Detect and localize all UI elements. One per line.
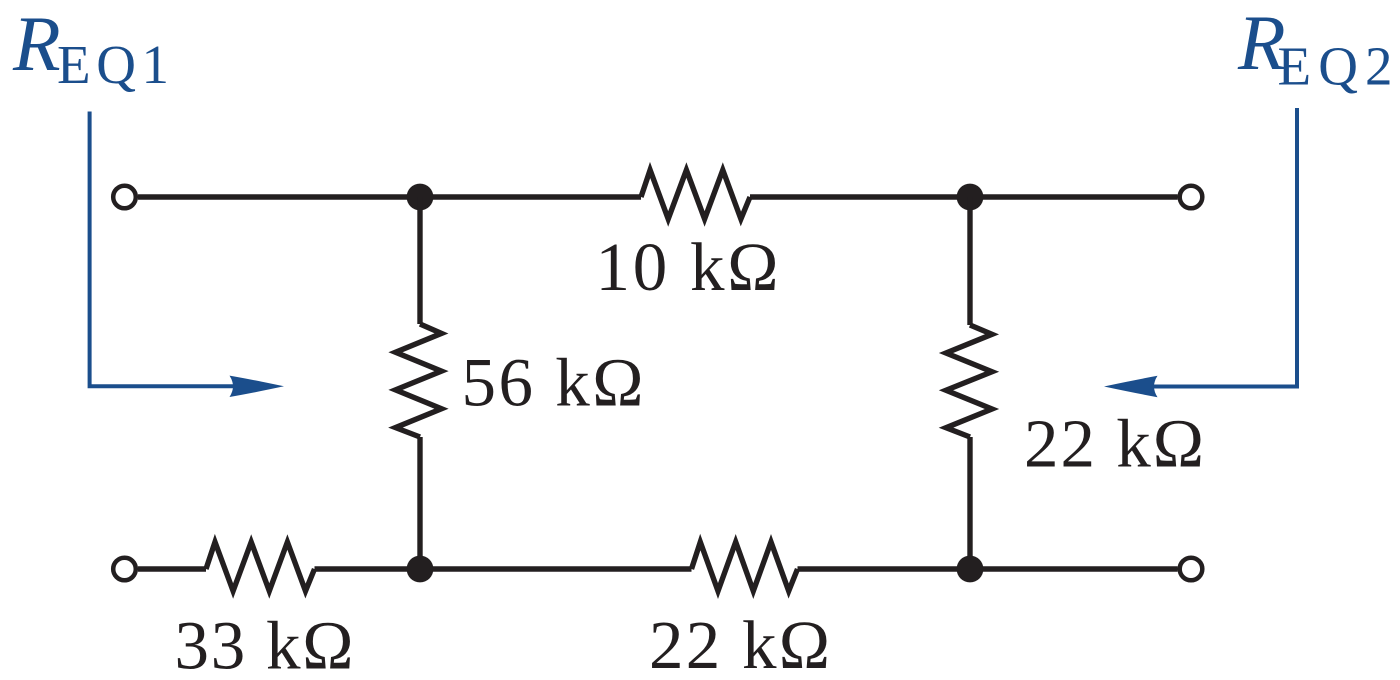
terminal bottom-left — [113, 558, 136, 581]
svg-text:EQ2: EQ2 — [1278, 36, 1393, 97]
resistor 10 kOhm (top horizontal) — [641, 170, 750, 219]
terminal top-left — [113, 186, 136, 209]
node A (top-left junction) — [407, 184, 434, 211]
svg-text:33 kΩ: 33 kΩ — [175, 608, 354, 680]
resistor 22 kOhm (right vertical) — [946, 325, 992, 437]
wire bottom-right: 22k resistor to terminal — [798, 566, 1178, 571]
svg-text:R: R — [12, 0, 61, 87]
svg-text:56 kΩ: 56 kΩ — [462, 345, 644, 421]
terminal top-right — [1180, 186, 1203, 209]
wire bottom-middle: 33k resistor to node C — [315, 566, 692, 571]
resistor 22 kOhm (bottom horizontal) — [692, 542, 798, 591]
svg-text:10 kΩ: 10 kΩ — [596, 229, 779, 305]
svg-text:EQ1: EQ1 — [57, 34, 169, 95]
svg-text:22 kΩ: 22 kΩ — [649, 607, 830, 680]
node C (bottom-left junction) — [407, 556, 434, 583]
wire bottom-left: terminal to 33k resistor — [138, 566, 206, 571]
label R_EQ2 — [1237, 0, 1393, 97]
label R_EQ1 — [12, 0, 169, 95]
current arrow into REQ2 (blue elbow with arrowhead) — [1104, 108, 1297, 397]
terminal bottom-right — [1180, 558, 1203, 581]
wire: node B down to 22k resistor — [967, 197, 972, 325]
wire: 56k resistor down to node C — [417, 437, 422, 569]
node B (top-right junction) — [957, 184, 984, 211]
wire: node A down to 56k resistor — [417, 197, 422, 324]
wire top-right: resistor to terminal — [750, 194, 1178, 199]
node D (bottom-right junction) — [957, 556, 984, 583]
resistor 33 kOhm (bottom-left horizontal) — [206, 542, 315, 591]
resistor 56 kOhm (left vertical) — [396, 324, 442, 437]
wire top-left: terminal to node A — [138, 194, 641, 199]
svg-text:22 kΩ: 22 kΩ — [1024, 406, 1204, 482]
wire: right 22k resistor down to node D — [967, 437, 972, 569]
current arrow into REQ1 (blue elbow with arrowhead) — [90, 112, 284, 398]
